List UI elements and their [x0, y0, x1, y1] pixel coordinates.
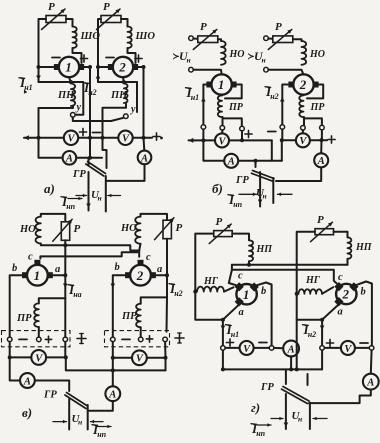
svg-text:н: н [98, 194, 102, 203]
outer plus mark (circuit v left) [77, 334, 86, 344]
svg-text:н: н [263, 192, 267, 201]
svg-text:а): а) [44, 181, 55, 196]
series winding PR2 (circuit v) [121, 304, 141, 328]
brushes machine 2v [125, 260, 156, 278]
svg-text:нп: нп [66, 202, 75, 211]
dc machine 2 (circuit a) [113, 57, 133, 77]
svg-text:ПР: ПР [16, 313, 32, 324]
svg-text:ПР: ПР [310, 102, 326, 113]
shunt winding SHO2 (circuit a) [121, 19, 155, 48]
label In2 (circuit a) [83, 80, 97, 97]
svg-text:ГР: ГР [235, 175, 249, 186]
label Inp (circuit b) [228, 192, 243, 209]
rheostat P (machine1, circuit g) [209, 216, 232, 244]
svg-text:V: V [344, 344, 352, 355]
svg-text:в): в) [22, 405, 32, 420]
svg-text:н: н [78, 418, 82, 427]
brush a2 (circuit g) [334, 297, 343, 306]
right brush wire machine2a [138, 65, 146, 138]
svg-text:н: н [298, 415, 302, 424]
bus right corner (circuit v) [165, 358, 167, 371]
switch jaw wires (circuit a) [103, 138, 107, 168]
svg-text:н2: н2 [174, 289, 182, 298]
brushes machine 1b [206, 82, 236, 88]
svg-text:а: а [55, 264, 60, 275]
rheostat P (machine 1, circuit a) [42, 1, 67, 30]
svg-text:нп: нп [233, 200, 242, 209]
upper equalizer wire (circuit v) [41, 244, 139, 257]
current arrow In1 (circuit b) [201, 97, 206, 102]
terminal strip right (circuit v) [105, 331, 170, 347]
svg-text:ПР: ПР [228, 102, 244, 113]
terminal strip left (circuit v) [2, 331, 71, 347]
svg-text:н: н [187, 56, 191, 65]
stem PR2 to strip (circuit v) [140, 327, 142, 337]
label Un with arrows (circuit b) [239, 187, 292, 201]
switch poles (circuit b) [258, 172, 274, 207]
terminal labels machine 2g [338, 272, 366, 318]
ammeter A1 (circuit b) [224, 154, 238, 168]
svg-text:ГР: ГР [43, 390, 57, 401]
rheostat P (machine2, circuit g) [311, 214, 334, 242]
svg-text:а: а [157, 264, 162, 275]
wire b2 down (circuit g) [356, 282, 372, 346]
separate excitation winding NO1 (circuit b) [218, 39, 245, 65]
wire rheo2 down (circuit v) [166, 239, 168, 276]
wire rheo1 down (circuit v) [63, 240, 67, 275]
svg-text:НП: НП [256, 244, 274, 255]
brushes machine 2b [288, 82, 318, 88]
input terminal circle 4 (circuit b m2) [264, 67, 269, 72]
left vertical wire x=98 (circuit a, machine2) [96, 19, 108, 82]
minus and terminal (circuit g m1) [259, 343, 274, 351]
ammeter A2 (circuit a) [138, 151, 152, 165]
label Inp (circuit a) [61, 194, 82, 211]
strip stem (v left a) [64, 298, 66, 337]
knife switch GR (circuit b) [235, 161, 274, 186]
dc machine 1 (circuit g) [236, 284, 256, 304]
terminal circle left (circuit b m2) [280, 125, 285, 130]
wire switch to A2 (circuit b) [276, 168, 321, 181]
wire a2 diagonal (circuit g) [297, 294, 341, 370]
dc machine 1 (circuit v) [27, 265, 48, 286]
left vertical wire x=38.5 (top run, circuit a) [37, 19, 55, 82]
svg-text:н1: н1 [231, 330, 239, 339]
voltmeter bus (circuit g m2) [324, 347, 369, 349]
polarity marks machine 1a [52, 55, 88, 62]
lower equalizer wire (circuit v) [40, 252, 137, 258]
voltmeter bus (circuit a) [37, 136, 153, 140]
svg-text:2: 2 [299, 77, 307, 92]
svg-text:Р: Р [74, 223, 81, 235]
wire plus2 down (circuit g) [321, 350, 323, 369]
winding NG1 (circuit g) [197, 276, 234, 292]
svg-text:НО: НО [229, 49, 245, 60]
equalizer node NP1 (circuit g) [247, 263, 251, 267]
link PR1 to bus terminal [223, 118, 245, 140]
knife switch GR (circuit a) [72, 158, 106, 180]
strip stem (v right a) [166, 297, 169, 331]
svg-text:Р: Р [200, 21, 207, 33]
label In2 (circuit g) [303, 322, 325, 339]
terminal labels machine 2v [115, 252, 163, 275]
svg-text:ГР: ГР [260, 382, 274, 393]
terminal circle + (circuit g m1) [221, 339, 234, 350]
svg-text:н: н [262, 56, 266, 65]
svg-text:н2: н2 [270, 92, 278, 101]
ammeter A2 (circuit g) [363, 374, 379, 390]
left wire machine 2b [282, 85, 288, 125]
input terminal circle 2 (circuit b) [189, 67, 194, 72]
NO2 coil bottom stem (circuit v) [139, 244, 140, 251]
excitation winding NO2 (circuit v) [120, 217, 141, 244]
label In1 (circuit a) [19, 75, 33, 94]
svg-text:V: V [136, 354, 144, 365]
label Un with dimension arrows (circuit a) [76, 189, 121, 203]
wire a1 to rheostat branch (circuit v) [53, 273, 67, 277]
label In2 (circuit v) [169, 281, 183, 298]
ammeter A2 center (circuit v) [105, 386, 120, 401]
wire b1 (circuit v) [10, 275, 22, 337]
ammeter bus left (circuit b) [203, 140, 281, 163]
minus and terminal (circuit g m2) [360, 343, 374, 350]
brushes machine 1a [54, 64, 84, 70]
ammeter bus (circuit a) [39, 138, 103, 160]
wire b1 down (circuit g) [256, 283, 271, 346]
voltmeter V1 (circuit g) [240, 341, 254, 355]
svg-text:нп: нп [97, 430, 106, 439]
ammeter A1 (circuit a) [63, 151, 77, 165]
wire A2 stem (circuit v) [112, 370, 114, 386]
wire a2 down to terminal (circuit g) [321, 320, 323, 346]
link PR1 to V terminal [220, 117, 225, 133]
link PR2 to bus terminal [304, 118, 324, 140]
input terminal circle 1 (circuit b) [189, 36, 198, 41]
rheostat P vertical (machine1, circuit v) [53, 219, 81, 241]
switch jaw stubs (circuit g) [286, 369, 308, 385]
right terminal + (circuit a) [153, 133, 163, 140]
brush b2 (circuit g) [349, 282, 358, 291]
winding NP2 (circuit g) [334, 232, 373, 259]
svg-text:2: 2 [118, 60, 126, 75]
voltmeter V2 (circuit b) [296, 133, 310, 147]
svg-text:Р: Р [317, 214, 324, 226]
series winding PN1 (circuit a) [57, 84, 75, 106]
brushes machine 1v [22, 260, 53, 278]
current arrow In1 on left wire [36, 76, 41, 81]
contact y1 (circuit a) [71, 102, 82, 117]
label In1 (circuit g) [221, 322, 240, 339]
svg-text:V: V [243, 344, 251, 355]
svg-text:b: b [361, 287, 366, 298]
svg-text:Р: Р [216, 216, 223, 228]
rheostat P (machine 2, circuit a) [97, 1, 122, 30]
label In1 (circuit b) [186, 85, 200, 102]
svg-text:НГ: НГ [305, 275, 321, 286]
wire machine1a bottom node [39, 77, 73, 84]
wire PN2 bottom to bus (circuit a) [103, 104, 127, 138]
main bus drop (circuit v) [66, 357, 166, 372]
svg-text:V: V [35, 353, 43, 364]
blade to contact y2 [111, 118, 124, 121]
input terminal circle 3 (circuit b m2) [264, 36, 273, 41]
svg-text:а: а [239, 307, 244, 318]
wire terminal2 to A2 (circuit g) [370, 350, 373, 374]
svg-text:A: A [227, 157, 235, 168]
svg-text:1: 1 [243, 287, 250, 302]
current arrow In2 (circuit b) [280, 97, 285, 102]
current arrow Ina [63, 284, 68, 289]
blade y1 to equal bus [73, 117, 111, 121]
terminal labels machine 1v [12, 252, 60, 276]
terminal circle left (circuit b m1) [201, 125, 206, 130]
voltmeter bus left (circuit v) [10, 356, 66, 358]
voltmeter bus (circuit g m1) [225, 347, 269, 349]
knife switch GR (circuit v) [43, 390, 88, 409]
label Ina (circuit v) [68, 282, 82, 299]
brush b1 (circuit g) [250, 282, 259, 291]
svg-text:A: A [108, 390, 116, 401]
wire terminal4 to machine2b [268, 70, 303, 75]
svg-text:у: у [76, 102, 82, 113]
ammeter A1 (circuit v) [20, 373, 35, 388]
switch pole wires (circuit a) [89, 172, 106, 212]
stub to bus (b m2 left) [280, 129, 284, 142]
label Un supply (circuit b, machine2) [248, 49, 266, 65]
terminal circle + (circuit g m2) [320, 339, 334, 350]
contact y2 (circuit a) [124, 104, 137, 118]
wire a1 down to terminal (circuit g) [222, 320, 224, 346]
label v) [22, 405, 32, 420]
brush c2 (circuit g) [334, 282, 343, 291]
minus mark between halves (circuit b) [268, 131, 276, 133]
brushes machine 2a [108, 64, 138, 70]
svg-text:с: с [238, 271, 243, 282]
stub y2 to coil wire [136, 82, 138, 112]
winding NP1 (circuit g) [232, 234, 273, 262]
arrow on pole (circuit a) [86, 204, 91, 209]
right brush wire machine1a [84, 65, 92, 158]
terminal labels machine 1g [238, 271, 266, 319]
voltmeter V2 (circuit a) [118, 131, 132, 145]
wire a2 node (circuit v) [156, 273, 169, 277]
svg-text:Р: Р [275, 21, 282, 33]
wire A2 to switch (circuit a) [106, 164, 145, 181]
wire SHO2 bottom to right brush [128, 48, 136, 63]
svg-text:A: A [65, 154, 73, 165]
wire plus1 down to bus (circuit g) [221, 350, 225, 371]
voltmeter V1 (circuit b) [215, 133, 229, 147]
label Inp (circuit v) [92, 422, 111, 439]
voltmeter V2 (circuit v) [132, 350, 147, 365]
link PR2 to V terminal [301, 117, 306, 133]
svg-text:b: b [12, 263, 17, 274]
svg-text:НО: НО [309, 49, 325, 60]
rheostat P (machine 1, circuit b) [193, 21, 218, 50]
outer plus mark (circuit v right) [175, 333, 184, 343]
svg-text:ПР: ПР [121, 311, 137, 322]
shunt winding SHO1 (circuit a) [66, 19, 100, 48]
series winding PR1 (circuit v) [16, 303, 39, 327]
wire bus to A2 (circuit b) [320, 140, 322, 153]
separate excitation winding NO2 (circuit b) [293, 39, 325, 65]
svg-text:н1: н1 [24, 83, 32, 92]
knife switch GR (circuit g) [260, 382, 309, 404]
equalizer wire lower (circuit g) [229, 265, 337, 286]
rheostat P (machine 2, circuit b) [268, 21, 293, 50]
svg-text:с: с [338, 272, 343, 283]
lower bus (circuit g) [223, 367, 322, 371]
dc machine 2 (circuit g) [336, 284, 356, 304]
current arrow b2 (circuit v) [111, 284, 116, 289]
dc machine 2 (circuit v) [130, 265, 151, 286]
svg-text:ШО: ШО [135, 31, 156, 42]
voltmeter bus right (circuit b) [282, 138, 327, 142]
svg-text:A: A [140, 153, 148, 164]
svg-text:с: с [28, 252, 33, 263]
polarity + - on bus a [79, 128, 100, 135]
wire machine2a bottom node [98, 77, 137, 84]
stem strip to bus (v right) [111, 342, 168, 371]
svg-text:у: у [130, 104, 136, 115]
wire switch to A2 (circuit g) [309, 389, 371, 403]
ammeter A2 feed wire [143, 138, 146, 151]
svg-text:1: 1 [218, 77, 225, 92]
label a) [44, 181, 55, 196]
current arrow In2 [96, 74, 101, 79]
label b) [212, 181, 223, 196]
wire SHO1 bottom to right brush [73, 48, 82, 63]
voltmeter V1 (circuit v) [31, 350, 46, 365]
stem strip to bus (v left) [8, 342, 68, 360]
wire to A1 (circuit v) [10, 357, 20, 380]
switch poles (circuit v) [69, 399, 88, 430]
winding NG2 (circuit g) [299, 275, 334, 294]
wire A1 to switch (circuit v) [35, 381, 69, 392]
svg-text:1: 1 [34, 268, 41, 283]
svg-text:Р: Р [103, 1, 110, 13]
stem PR1 to strip (circuit v) [38, 327, 40, 337]
armature loop machine 1b [225, 85, 242, 99]
wire A1 bottom (circuit g) [290, 356, 292, 369]
svg-text:V: V [122, 134, 130, 145]
series winding PN2 (circuit a) [110, 84, 128, 104]
supply arrow left (circuit b) [189, 138, 196, 143]
svg-text:ПН: ПН [110, 90, 128, 101]
left vertical wire (circuit g m1) [193, 234, 213, 294]
svg-text:b: b [115, 262, 120, 273]
left wire machine 1b [203, 85, 206, 125]
supply arrow left (circuit a) [24, 135, 39, 140]
wire b2 (circuit v) [113, 275, 125, 337]
svg-text:1: 1 [65, 60, 72, 75]
svg-text:A: A [317, 156, 325, 167]
svg-text:н1: н1 [191, 93, 199, 102]
svg-text:Р: Р [176, 222, 183, 234]
voltmeter bus left (circuit b) [195, 138, 272, 142]
svg-text:нп: нп [256, 429, 265, 438]
dc machine 1 (circuit a) [59, 57, 79, 77]
svg-text:2: 2 [136, 268, 144, 283]
svg-text:а: а [338, 307, 343, 318]
svg-text:V: V [218, 136, 226, 147]
svg-text:б): б) [212, 181, 223, 196]
plus mark (circuit b left) [245, 130, 252, 137]
svg-text:A: A [366, 378, 374, 389]
equalizer wire upper (circuit g) [232, 261, 348, 264]
wire PN1 bottom to bus (circuit a) [39, 107, 74, 138]
svg-text:V: V [299, 136, 307, 147]
svg-text:на: на [73, 290, 81, 299]
wire A2 to switch (circuit v) [88, 401, 113, 411]
brush a1 (circuit g) [235, 297, 244, 306]
excitation winding NO1 (circuit v) [19, 217, 41, 244]
armature loop machine 2b [307, 85, 323, 99]
voltmeter V1 (circuit a) [64, 131, 78, 145]
stub to bus (b m1 left) [202, 129, 204, 140]
svg-text:b: b [261, 286, 266, 297]
plus mark right (circuit b) [328, 136, 335, 143]
svg-text:A: A [23, 376, 31, 387]
svg-text:ГР: ГР [72, 169, 86, 180]
svg-text:2: 2 [342, 287, 350, 302]
ammeter A2 (circuit b) [314, 153, 328, 167]
dc machine 2 (circuit b) [293, 74, 313, 94]
label Inp (circuit g) [251, 421, 271, 438]
polarity marks machine 2a [106, 55, 142, 62]
voltmeter bus right (circuit v) [113, 357, 166, 359]
stem NP2 to equalizer (circuit g) [347, 259, 349, 265]
top wire machine1 (circuit v) [41, 214, 66, 222]
brush c1 (circuit g) [235, 282, 244, 291]
svg-text:A: A [287, 344, 295, 355]
voltmeter V2 (circuit g) [341, 341, 355, 355]
label Un with arrows (circuit g) [271, 410, 327, 424]
switch poles (circuit g) [284, 394, 310, 429]
svg-text:Р: Р [48, 1, 55, 13]
svg-text:г): г) [251, 400, 260, 415]
svg-text:V: V [67, 134, 75, 145]
dc machine 1 (circuit b) [211, 74, 231, 94]
wire a1 down (circuit v) [39, 275, 66, 303]
series winding PR2 (circuit b) [299, 95, 325, 117]
wire a2 down (circuit v) [141, 275, 167, 304]
label g) [251, 400, 260, 415]
rheostat P vertical (machine2, circuit v) [155, 218, 183, 240]
svg-text:н2: н2 [308, 330, 316, 339]
label Un supply (circuit b, machine1) [173, 49, 191, 65]
svg-text:ПН: ПН [57, 90, 75, 101]
left vertical wire (circuit g m2) [295, 232, 315, 296]
wire terminal to A1 (circuit g) [274, 347, 283, 349]
top wire machine2 (circuit v) [141, 214, 168, 220]
label In2 (circuit b) [265, 84, 279, 101]
series winding PR1 (circuit b) [218, 95, 244, 117]
equalizer wire machine1a [71, 82, 84, 115]
label Un with arrows (circuit v) [53, 413, 103, 427]
wire terminal2 to machine1b [193, 70, 221, 75]
svg-text:НП: НП [355, 242, 373, 253]
svg-text:НО: НО [120, 223, 137, 234]
ammeter A1 (circuit g) [283, 341, 299, 357]
svg-text:НО: НО [19, 224, 36, 235]
svg-text:НГ: НГ [203, 276, 219, 287]
svg-text:с: с [146, 252, 151, 263]
wire a1 diagonal (circuit g) [195, 292, 240, 322]
